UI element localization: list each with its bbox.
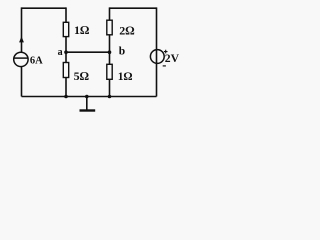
wire: left outer vertical (below 6A source) — [21, 66, 23, 96]
junction dot ground/bottom — [85, 95, 89, 99]
junction dot branch2/bottom — [108, 95, 112, 99]
minus sign of V1 — [163, 65, 166, 67]
svg-text:5Ω: 5Ω — [74, 69, 89, 83]
wire: right outer vertical — [156, 7, 158, 96]
wire: branch 2 vertical above resistor R2 — [109, 7, 111, 20]
svg-text:b: b — [119, 46, 125, 58]
voltage source V1 circle (2V) — [150, 50, 164, 64]
wire: top-right segment — [110, 7, 157, 9]
wire: bottom — [22, 96, 157, 98]
wire: left outer vertical (above 6A source) — [21, 7, 23, 52]
svg-text:a: a — [58, 47, 63, 58]
wire: branch 1 below R3 — [65, 78, 67, 97]
ground bar — [80, 109, 96, 111]
node a junction dot — [64, 50, 68, 54]
current direction arrowhead on left wire — [19, 36, 24, 42]
svg-text:2Ω: 2Ω — [119, 23, 134, 37]
wire: branch 2 below R4 — [109, 79, 111, 96]
svg-text:1Ω: 1Ω — [118, 71, 133, 83]
ground stub wire — [86, 97, 88, 110]
resistor R4 box (1 ohm, lower right branch) — [107, 64, 112, 79]
wire: branch 1 vertical above resistor R1 — [65, 7, 67, 22]
node b junction dot — [108, 50, 112, 54]
resistor R2 box (2 ohm, top-right branch) — [107, 20, 112, 35]
junction dot branch1/bottom — [64, 95, 68, 99]
wire: top-left segment — [22, 7, 67, 9]
svg-text:2V: 2V — [165, 52, 180, 65]
wire: branch 1 between R1 and node a — [65, 37, 67, 63]
plus sign of V1 — [164, 50, 168, 54]
svg-text:6A: 6A — [30, 55, 43, 66]
current source I1 circle (6A) — [14, 52, 28, 66]
resistor R3 box (5 ohm) — [63, 63, 68, 78]
wire: middle a-b connection — [66, 51, 110, 53]
svg-text:1Ω: 1Ω — [74, 23, 89, 37]
wire: branch 2 between R2 and node b — [109, 35, 111, 65]
resistor R1 box (1 ohm, top-left branch) — [63, 22, 68, 36]
current source I1 chord line — [14, 57, 28, 59]
